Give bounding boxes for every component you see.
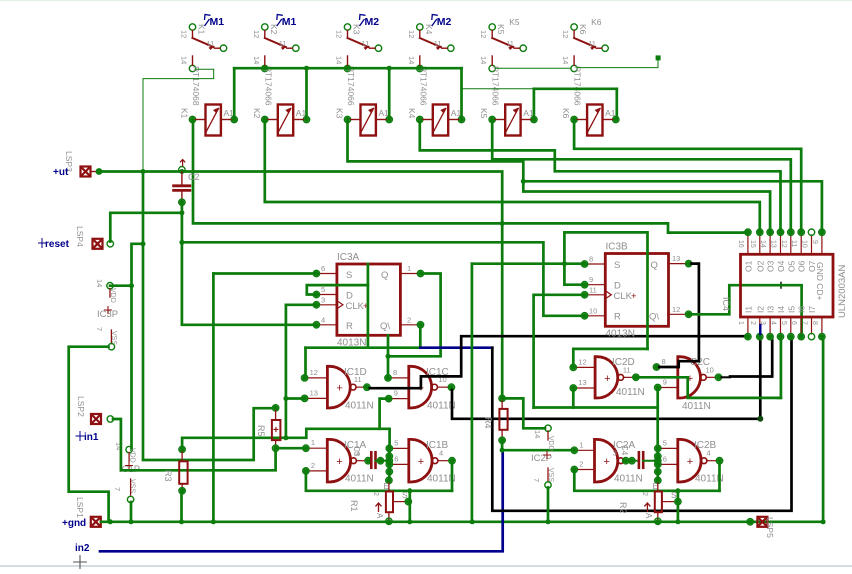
relay coil K3 RT17406x (361, 105, 376, 136)
svg-text:IC2B: IC2B (694, 440, 717, 451)
svg-text:O6: O6 (797, 260, 807, 272)
svg-text:O3: O3 (766, 260, 776, 272)
wire: IC1D.12 vertical (304, 348, 307, 375)
wire: K6 coil to ULN O6 (pin 11) (574, 122, 801, 229)
svg-text:2: 2 (372, 492, 379, 496)
svg-text:4011N: 4011N (345, 474, 374, 485)
svg-text:5: 5 (394, 438, 398, 447)
wire: R3 bottom to gnd (180, 492, 183, 520)
svg-text:K3: K3 (335, 108, 345, 119)
wire: reset branch to IC3B.R line (182, 242, 582, 315)
pad LSP5 on gnd line (757, 517, 767, 527)
wire: ULN pin8 to gnd (822, 340, 825, 522)
wire: Q line stub to IC3A bottom edge and down to IC1C.8 (387, 335, 390, 374)
junction Q line (386, 354, 391, 359)
svg-text:IC3B: IC3B (606, 242, 629, 253)
svg-text:14: 14 (407, 56, 416, 64)
resistor R4 (499, 395, 505, 401)
svg-text:1: 1 (311, 438, 315, 447)
wire: IC3A.D loop to crossing vertical (307, 285, 368, 294)
svg-text:I5: I5 (786, 306, 796, 313)
junction R1.A (386, 519, 391, 524)
wire: gnd-net vertical x=471.9 (471, 264, 474, 521)
junction S-net (211, 519, 216, 524)
pad LSP2 (in1) (91, 414, 101, 424)
pad LSP3 (+ut) (81, 167, 91, 177)
svg-text:R2: R2 (618, 502, 628, 514)
svg-text:12: 12 (780, 240, 787, 248)
svg-text:K1: K1 (180, 108, 190, 119)
junction CLK vertical / R3 line (283, 435, 288, 440)
IC3A 4013N flip-flop body (337, 264, 401, 335)
gate IC2A (593, 438, 618, 483)
gate IC2C (677, 355, 701, 399)
svg-text:M1: M1 (282, 16, 297, 28)
svg-text:M2: M2 (437, 16, 452, 28)
svg-text:R: R (614, 312, 621, 323)
gate IC1A (326, 438, 351, 483)
wire: IC3A.CLK from junction (286, 303, 314, 306)
wire: reset net LSP4 up and right to cap bottom (110, 213, 182, 242)
svg-text:I3: I3 (766, 306, 776, 313)
svg-text:K6: K6 (561, 108, 571, 119)
junction IC2P VSS (546, 519, 551, 524)
svg-text:A1: A1 (379, 108, 390, 118)
svg-text:12: 12 (252, 30, 261, 38)
junction tick on I6 line (778, 282, 785, 289)
ULN top pin 15 (759, 235, 761, 254)
svg-text:+gnd: +gnd (62, 518, 86, 529)
ULN2003AN IC4 body (741, 254, 834, 317)
ULN bottom pin 1 (747, 317, 749, 334)
wire: IC2B input column (656, 446, 659, 480)
svg-text:RT174066: RT174066 (263, 66, 273, 106)
relay coil K1 RT17406x (206, 105, 221, 136)
wire: in2 navy bottom (100, 450, 503, 551)
IC3A pins (319, 273, 337, 275)
svg-text:C4: C4 (620, 445, 629, 456)
svg-text:12: 12 (310, 368, 318, 377)
ULN top pin 14 (769, 235, 771, 254)
trimmer R2 (655, 477, 661, 483)
svg-text:3: 3 (613, 449, 617, 458)
wire: IC1C.10 output black to ULN pin2 (452, 340, 760, 419)
svg-text:S: S (402, 490, 408, 500)
wire: C3 right to IC1B input column (376, 460, 390, 462)
svg-text:5: 5 (780, 321, 787, 325)
svg-text:LSP4: LSP4 (75, 226, 85, 247)
svg-text:4: 4 (707, 449, 711, 458)
svg-text:+: + (418, 456, 424, 468)
svg-text:1: 1 (407, 264, 411, 273)
junction dots on bus (262, 66, 267, 71)
svg-text:I1: I1 (743, 306, 753, 313)
wire: R1.S vertical (408, 491, 411, 521)
svg-text:IC1B: IC1B (426, 440, 449, 451)
svg-text:8: 8 (393, 368, 397, 377)
svg-text:K4: K4 (407, 108, 417, 119)
svg-text:D: D (614, 281, 621, 292)
ULN bottom pin 6 (800, 317, 802, 334)
wire: K3 coil to ULN O3 (pin 14) (348, 122, 771, 229)
wire: IC3A.S to gnd vertical (213, 272, 313, 275)
svg-text:+: + (336, 456, 342, 468)
svg-text:4011N: 4011N (616, 387, 645, 398)
power symbol IC3P (107, 283, 113, 289)
wire: A-pin supply bus y=68.2 (234, 67, 461, 70)
wire: K3.A drop (388, 68, 391, 117)
junction S wire crossing (562, 261, 567, 266)
ULN top pin 9 (821, 235, 823, 254)
wire: IC3A.Q to the right and down (388, 274, 441, 357)
ULN top pin 13 (780, 235, 782, 254)
wire: ULN pin16 stub from O1 line (744, 231, 748, 234)
svg-text:6: 6 (394, 454, 398, 463)
relay coil K5 RT17406x (505, 105, 520, 136)
wire: IC3A.Q\ down to IC1D.12 line (419, 327, 422, 348)
svg-text:LSP2: LSP2 (76, 396, 86, 417)
svg-text:CLK: CLK (614, 291, 633, 302)
junction (470, 519, 475, 524)
pad LSP1 (+gnd) (91, 517, 101, 527)
svg-text:ULN2003AN: ULN2003AN (837, 265, 848, 318)
svg-text:RT174066: RT174066 (418, 66, 428, 106)
wire: IC1D.11 output black net to ULN pin1 (370, 336, 747, 388)
svg-text:D: D (346, 291, 353, 302)
wire: C2C.9 vertical chain down to IC2B.5 (656, 390, 659, 448)
wire: IC1B input column (388, 446, 391, 480)
svg-text:7: 7 (532, 478, 541, 482)
wire: CLK net vertical (285, 305, 288, 438)
wire: IC1C.9 net jog (380, 399, 386, 429)
junction +ut / K1.14 thin net (141, 169, 146, 174)
ULN bottom pin 7 (811, 317, 813, 334)
svg-text:11: 11 (506, 39, 514, 48)
wire: C2C.10 black to ULN pin3 (721, 376, 730, 378)
svg-text:K6: K6 (578, 24, 588, 35)
svg-text:2: 2 (311, 461, 315, 470)
svg-text:Q\: Q\ (649, 312, 659, 323)
svg-text:in1: in1 (84, 432, 99, 443)
svg-text:10: 10 (589, 306, 597, 315)
wire: thin net K1.14 jog to +ut junction (143, 69, 214, 170)
wire: vertical through IC3A (D=Q\ feedback) (367, 264, 370, 348)
svg-text:7: 7 (801, 321, 808, 325)
svg-text:O1: O1 (743, 260, 753, 272)
capacitor C4 (629, 460, 638, 462)
pad LSP4 (reset) (93, 239, 103, 249)
wire: gnd bus bottom (101, 520, 823, 523)
svg-text:A1: A1 (605, 108, 616, 118)
svg-text:O2: O2 (755, 260, 765, 272)
gate IC2B (677, 438, 702, 483)
ULN bottom pin 3 (769, 317, 771, 334)
svg-text:Q\: Q\ (380, 321, 390, 332)
relay contact K6 (pins 12/11/14) (571, 24, 577, 30)
svg-text:reset: reset (45, 239, 70, 250)
svg-text:14: 14 (561, 56, 570, 64)
gate IC1D (326, 365, 350, 409)
svg-text:I6: I6 (797, 306, 807, 313)
relay contact K4 (pins 12/11/14) (417, 24, 423, 30)
svg-text:2: 2 (579, 460, 583, 469)
relay coil K2 RT17406x (278, 105, 293, 136)
wire: thin bus extension to K5/K6 (462, 88, 534, 90)
wire: IC2B.4 output down to S line (718, 464, 721, 491)
wire: jog to VDD rail x=131.5 (132, 244, 144, 450)
wire: +ut/VDD vertical x=143 (142, 172, 145, 244)
junction ULN GND (821, 519, 826, 524)
svg-text:3: 3 (321, 295, 325, 304)
svg-text:5: 5 (663, 438, 667, 447)
svg-text:12: 12 (335, 30, 344, 38)
svg-text:8: 8 (811, 321, 818, 325)
svg-text:6: 6 (790, 321, 797, 325)
wire: thin net K5.14 - K6.14 dangling (495, 67, 571, 69)
svg-text:K6: K6 (591, 17, 602, 27)
svg-text:14: 14 (335, 56, 344, 64)
gate IC1B (408, 438, 433, 483)
svg-text:7: 7 (95, 327, 104, 331)
wire: K1 coil to ULN O1 (pin 16) (193, 122, 744, 233)
svg-text:4: 4 (439, 449, 443, 458)
svg-text:A1: A1 (523, 108, 534, 118)
wire: capacitor C3 node left (368, 460, 371, 462)
svg-text:CLK: CLK (346, 301, 365, 312)
junction R2.A (655, 519, 660, 524)
svg-text:4013N: 4013N (606, 329, 635, 340)
svg-text:E: E (384, 482, 389, 491)
wire: IC1A.2 to IC1B.4 line (306, 473, 452, 491)
ULN top pin 16 (747, 235, 749, 254)
junction R2.S drop (675, 519, 680, 524)
wire: IC3B.D loop up over chip (564, 232, 647, 349)
svg-text:IC3A: IC3A (337, 252, 360, 263)
svg-text:A1: A1 (451, 108, 462, 118)
svg-text:+: + (604, 373, 610, 385)
ULN bottom pin 8 (821, 317, 823, 334)
wire: IC3P VDD connection (110, 284, 132, 287)
svg-text:E: E (653, 482, 658, 491)
capacitor C2 (179, 167, 185, 173)
svg-text:15: 15 (749, 240, 756, 248)
wire: IC3B.S line from gnd-net corner (472, 262, 582, 265)
svg-text:12: 12 (561, 30, 570, 38)
svg-text:16: 16 (737, 240, 744, 248)
svg-text:9: 9 (811, 240, 818, 244)
svg-text:+: + (687, 456, 693, 468)
wire: R3 top to CLK net line (182, 429, 390, 450)
wire: IC3B.Q\ to ULN I6 (692, 285, 802, 336)
svg-text:11: 11 (354, 375, 362, 384)
wire: IC2D.11 output to ULN O-in pin 4 net (639, 377, 778, 398)
junction R1.S drop (407, 519, 412, 524)
svg-text:+: + (336, 383, 342, 395)
svg-text:11: 11 (362, 39, 370, 48)
svg-text:10: 10 (706, 365, 714, 374)
wire: K6.A drop (615, 89, 618, 117)
svg-text:8: 8 (662, 357, 666, 366)
svg-text:A: A (375, 513, 384, 519)
wire: IC3P VSS to left rail down to gnd (69, 347, 109, 521)
svg-text:O7: O7 (807, 260, 817, 272)
svg-text:11: 11 (623, 365, 631, 374)
svg-text:A1: A1 (296, 108, 307, 118)
svg-text:9: 9 (663, 378, 667, 387)
svg-text:1: 1 (737, 321, 744, 325)
IC3B pins (588, 263, 606, 265)
svg-text:C2: C2 (188, 172, 200, 182)
wire: K5/K6 A bus (534, 87, 617, 90)
wire: +ut east segment down to R4 (182, 172, 502, 399)
wire: IC3B.CLK down (534, 295, 582, 408)
junction CLK / IC1D.13 (283, 396, 288, 401)
svg-text:13: 13 (310, 388, 318, 397)
power symbol IC1P (126, 446, 132, 452)
wire: IC2D.13 drop (572, 391, 575, 408)
gate IC2D (594, 355, 618, 399)
svg-text:R1: R1 (349, 500, 359, 512)
svg-text:14: 14 (95, 279, 104, 287)
svg-text:14: 14 (252, 56, 261, 64)
wire: IC1P VSS to gnd (130, 502, 133, 520)
wire: CD+ line to ULN pin 9 (523, 181, 822, 229)
svg-text:13: 13 (672, 254, 680, 263)
gate IC1C (408, 365, 432, 409)
ULN top pin 10 (811, 235, 813, 254)
junction R3 bottom (179, 519, 184, 524)
IC3B 4013N flip-flop body (605, 254, 668, 327)
svg-text:K5: K5 (496, 24, 506, 35)
wire: K4.A drop (460, 68, 463, 117)
svg-text:4: 4 (321, 315, 325, 324)
wire: R2.S vertical (677, 491, 680, 521)
svg-text:RT174066: RT174066 (346, 66, 356, 106)
svg-text:13: 13 (578, 378, 586, 387)
wire: navy link from Q\ node to ULN pin5 net (420, 346, 492, 349)
junction IC1P VSS drop (129, 519, 134, 524)
wire: K4 coil to ULN O4 (pin 13) (420, 122, 781, 229)
wire: R4 bottom node (502, 440, 571, 450)
svg-text:12: 12 (180, 30, 189, 38)
svg-text:VDD: VDD (129, 448, 136, 463)
svg-text:R: R (346, 321, 353, 332)
relay contact K3 (pins 12/11/14) (344, 24, 350, 30)
wire: IC2A.2 to IC2B.4 line (574, 472, 719, 491)
wire: IC1D.12 / Q\ horizontal (306, 346, 421, 349)
dangling wire end square (656, 55, 661, 60)
resistor R3 (179, 446, 185, 452)
svg-text:VSS: VSS (129, 479, 136, 493)
svg-text:+: + (273, 425, 279, 436)
svg-text:12: 12 (407, 30, 416, 38)
svg-text:IC4: IC4 (721, 297, 731, 311)
svg-text:11: 11 (588, 39, 596, 48)
wire: reset vertical down to IC3A.R (182, 202, 314, 324)
resistor R5 (272, 405, 278, 411)
wire: K2.A drop (305, 68, 308, 117)
svg-text:11: 11 (434, 39, 442, 48)
svg-text:K5: K5 (509, 17, 520, 27)
svg-text:12: 12 (578, 357, 586, 366)
svg-text:14: 14 (759, 240, 766, 248)
junction LSP1 (108, 519, 113, 524)
junction +ut / K1 line (500, 221, 505, 226)
capacitor C3 (370, 452, 373, 468)
ULN top pin 12 (790, 235, 792, 254)
svg-text:K5: K5 (479, 108, 489, 119)
wire: gnd vertical from IC3A.S x=213.4 (212, 274, 215, 521)
ULN bottom pin 5 (790, 317, 792, 334)
power symbol IC2P (545, 425, 551, 431)
svg-text:6: 6 (663, 454, 667, 463)
svg-text:LSP5: LSP5 (765, 517, 775, 538)
wire: black down to y=510.8 and to ULN pin 5 (492, 340, 791, 511)
svg-text:2: 2 (641, 492, 648, 496)
svg-text:K2: K2 (252, 108, 262, 119)
svg-text:in2: in2 (75, 543, 90, 554)
svg-text:VDD: VDD (547, 436, 554, 451)
svg-text:4011N: 4011N (614, 474, 643, 485)
wire: K5.A drop (533, 89, 536, 117)
svg-text:11: 11 (207, 39, 215, 48)
wire: in1 to R5 bottom node (113, 419, 276, 470)
wire: IC2D.12 link from crossing vertical (573, 349, 647, 365)
svg-text:R5: R5 (256, 425, 266, 437)
frame border (0, 0, 852, 2)
svg-text:7: 7 (113, 487, 122, 491)
wire: ULN pin4 drop (780, 340, 783, 398)
svg-text:I2: I2 (755, 306, 765, 313)
wire: IC2D.13 line (534, 406, 658, 409)
svg-text:Q: Q (651, 260, 658, 271)
svg-text:4011N: 4011N (345, 401, 374, 412)
wire: IC2P VSS to gnd (547, 488, 550, 521)
svg-text:13: 13 (770, 240, 777, 248)
relay coil K6 RT17406x (587, 105, 602, 136)
svg-text:I7: I7 (807, 306, 817, 313)
svg-text:14: 14 (479, 56, 488, 64)
wire: R5 bottom to IC1A pin1 (276, 447, 303, 450)
wire: K2 coil to ULN O2 (pin 15) (265, 122, 760, 229)
svg-text:11: 11 (589, 285, 597, 294)
svg-text:RT174066: RT174066 (573, 66, 583, 106)
svg-text:1: 1 (579, 440, 583, 449)
svg-text:10: 10 (801, 240, 808, 248)
svg-text:6: 6 (321, 264, 325, 273)
svg-text:I4: I4 (776, 306, 786, 313)
svg-text:9: 9 (394, 389, 398, 398)
svg-text:M1: M1 (210, 16, 225, 28)
svg-text:O4: O4 (776, 260, 786, 272)
origin cross for in2 (73, 555, 87, 569)
ULN bottom pin 2 (759, 317, 761, 334)
svg-text:9: 9 (589, 275, 593, 284)
wire: K5 coil to ULN O5 (pin 12) (492, 122, 791, 229)
svg-text:11: 11 (790, 240, 797, 247)
junction (748, 519, 753, 524)
ULN bottom pin 4 (780, 317, 782, 334)
navy stub above ULN pin 2 (759, 325, 761, 334)
wire: IC1B.4 output down-left to R1.S line (451, 464, 454, 491)
svg-text:+: + (604, 456, 610, 468)
svg-text:2: 2 (407, 315, 411, 324)
svg-text:+: + (631, 291, 637, 302)
svg-text:C3: C3 (352, 446, 361, 457)
svg-text:VDD: VDD (109, 288, 116, 303)
relay coil K4 RT17406x (433, 105, 448, 136)
svg-text:Q: Q (381, 270, 388, 281)
